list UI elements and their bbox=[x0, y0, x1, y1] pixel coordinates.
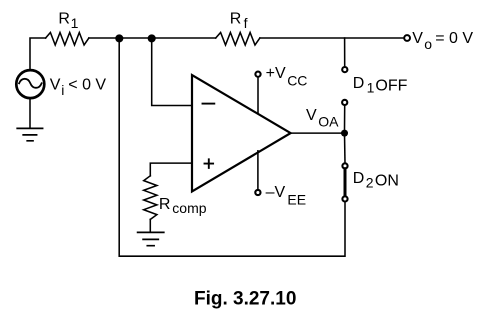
node VOA (junction dot) bbox=[341, 130, 348, 137]
svg-text:V: V bbox=[412, 30, 423, 47]
+VCC terminal circle bbox=[255, 72, 260, 77]
svg-text:f: f bbox=[244, 15, 248, 31]
svg-text:ON: ON bbox=[375, 173, 399, 190]
svg-text:1: 1 bbox=[367, 79, 375, 95]
svg-text:–V: –V bbox=[266, 184, 286, 201]
op-amp non-inverting input marker bbox=[205, 159, 214, 168]
node B (junction dot to inverting input) bbox=[148, 34, 156, 42]
svg-text:OA: OA bbox=[318, 114, 339, 130]
label Rf bbox=[230, 10, 248, 31]
svg-text:Fig. 3.27.10: Fig. 3.27.10 bbox=[194, 289, 296, 310]
svg-text:2: 2 bbox=[366, 175, 374, 191]
svg-text:D: D bbox=[353, 75, 365, 92]
source Vi (AC sine source) bbox=[16, 70, 44, 98]
svg-text:comp: comp bbox=[172, 200, 206, 216]
svg-text:D: D bbox=[353, 170, 365, 187]
ground (below source Vi) bbox=[17, 128, 42, 140]
wire: Rcomp to ground bbox=[149, 219, 151, 231]
wire: node B to inverting input bbox=[152, 38, 192, 106]
label Rcomp bbox=[159, 196, 207, 216]
svg-text:R: R bbox=[58, 10, 70, 27]
wire: feedback path from node A down, along bottom, up to D2 cathode bbox=[119, 38, 345, 256]
svg-text:R: R bbox=[159, 196, 171, 213]
svg-text:< 0 V: < 0 V bbox=[68, 76, 106, 93]
svg-text:= 0 V: = 0 V bbox=[435, 30, 473, 47]
svg-text:EE: EE bbox=[287, 191, 306, 207]
label R1 bbox=[58, 10, 78, 31]
wire: op-amp output to node VOA bbox=[291, 132, 345, 134]
wire: top-left segment from source to R1 bbox=[30, 38, 46, 70]
wire: non-inverting input to Rcomp bbox=[150, 163, 192, 176]
label Vi < 0 V bbox=[50, 76, 107, 98]
resistor R1 bbox=[46, 33, 89, 46]
resistor Rcomp bbox=[144, 176, 157, 220]
diode D1 (open, shown as open terminals) bbox=[342, 67, 347, 72]
label Vo = 0 V bbox=[412, 30, 473, 52]
wire: node VOA down to D2 bbox=[344, 133, 347, 163]
svg-text:OFF: OFF bbox=[375, 78, 407, 95]
label +VCC bbox=[266, 65, 308, 88]
svg-text:i: i bbox=[61, 82, 64, 98]
op-amp inverting input marker bbox=[203, 103, 215, 105]
wire: Rf to output terminal bbox=[260, 37, 404, 39]
op-amp U1 bbox=[192, 75, 291, 192]
label VOA bbox=[306, 107, 339, 130]
wire: D1 anode stub from top wire bbox=[344, 38, 346, 67]
label D1 OFF bbox=[353, 75, 408, 95]
resistor Rf bbox=[216, 33, 260, 46]
wire: source to ground bbox=[29, 99, 31, 128]
-VEE terminal circle bbox=[255, 190, 260, 195]
svg-text:o: o bbox=[424, 36, 432, 52]
svg-text:CC: CC bbox=[287, 72, 307, 88]
wire: D1 lower terminal to node VOA bbox=[344, 105, 346, 130]
wire: op-amp bottom to -VEE terminal bbox=[257, 151, 259, 190]
wire: R1 to Rf along top bbox=[89, 37, 216, 39]
node A (summing junction dot, feedback branch) bbox=[115, 34, 123, 42]
wire: +VCC stub into op-amp top bbox=[257, 77, 259, 114]
ground (below Rcomp) bbox=[138, 232, 164, 245]
svg-text:+V: +V bbox=[266, 65, 286, 82]
svg-text:1: 1 bbox=[71, 15, 79, 31]
svg-text:R: R bbox=[230, 10, 242, 27]
svg-text:V: V bbox=[306, 107, 317, 124]
label -VEE bbox=[266, 184, 306, 208]
label D2 ON bbox=[353, 170, 399, 191]
output terminal Vo bbox=[404, 35, 410, 41]
svg-text:V: V bbox=[50, 76, 61, 93]
diode D2 (conducting, shown as closed link) bbox=[342, 163, 347, 168]
